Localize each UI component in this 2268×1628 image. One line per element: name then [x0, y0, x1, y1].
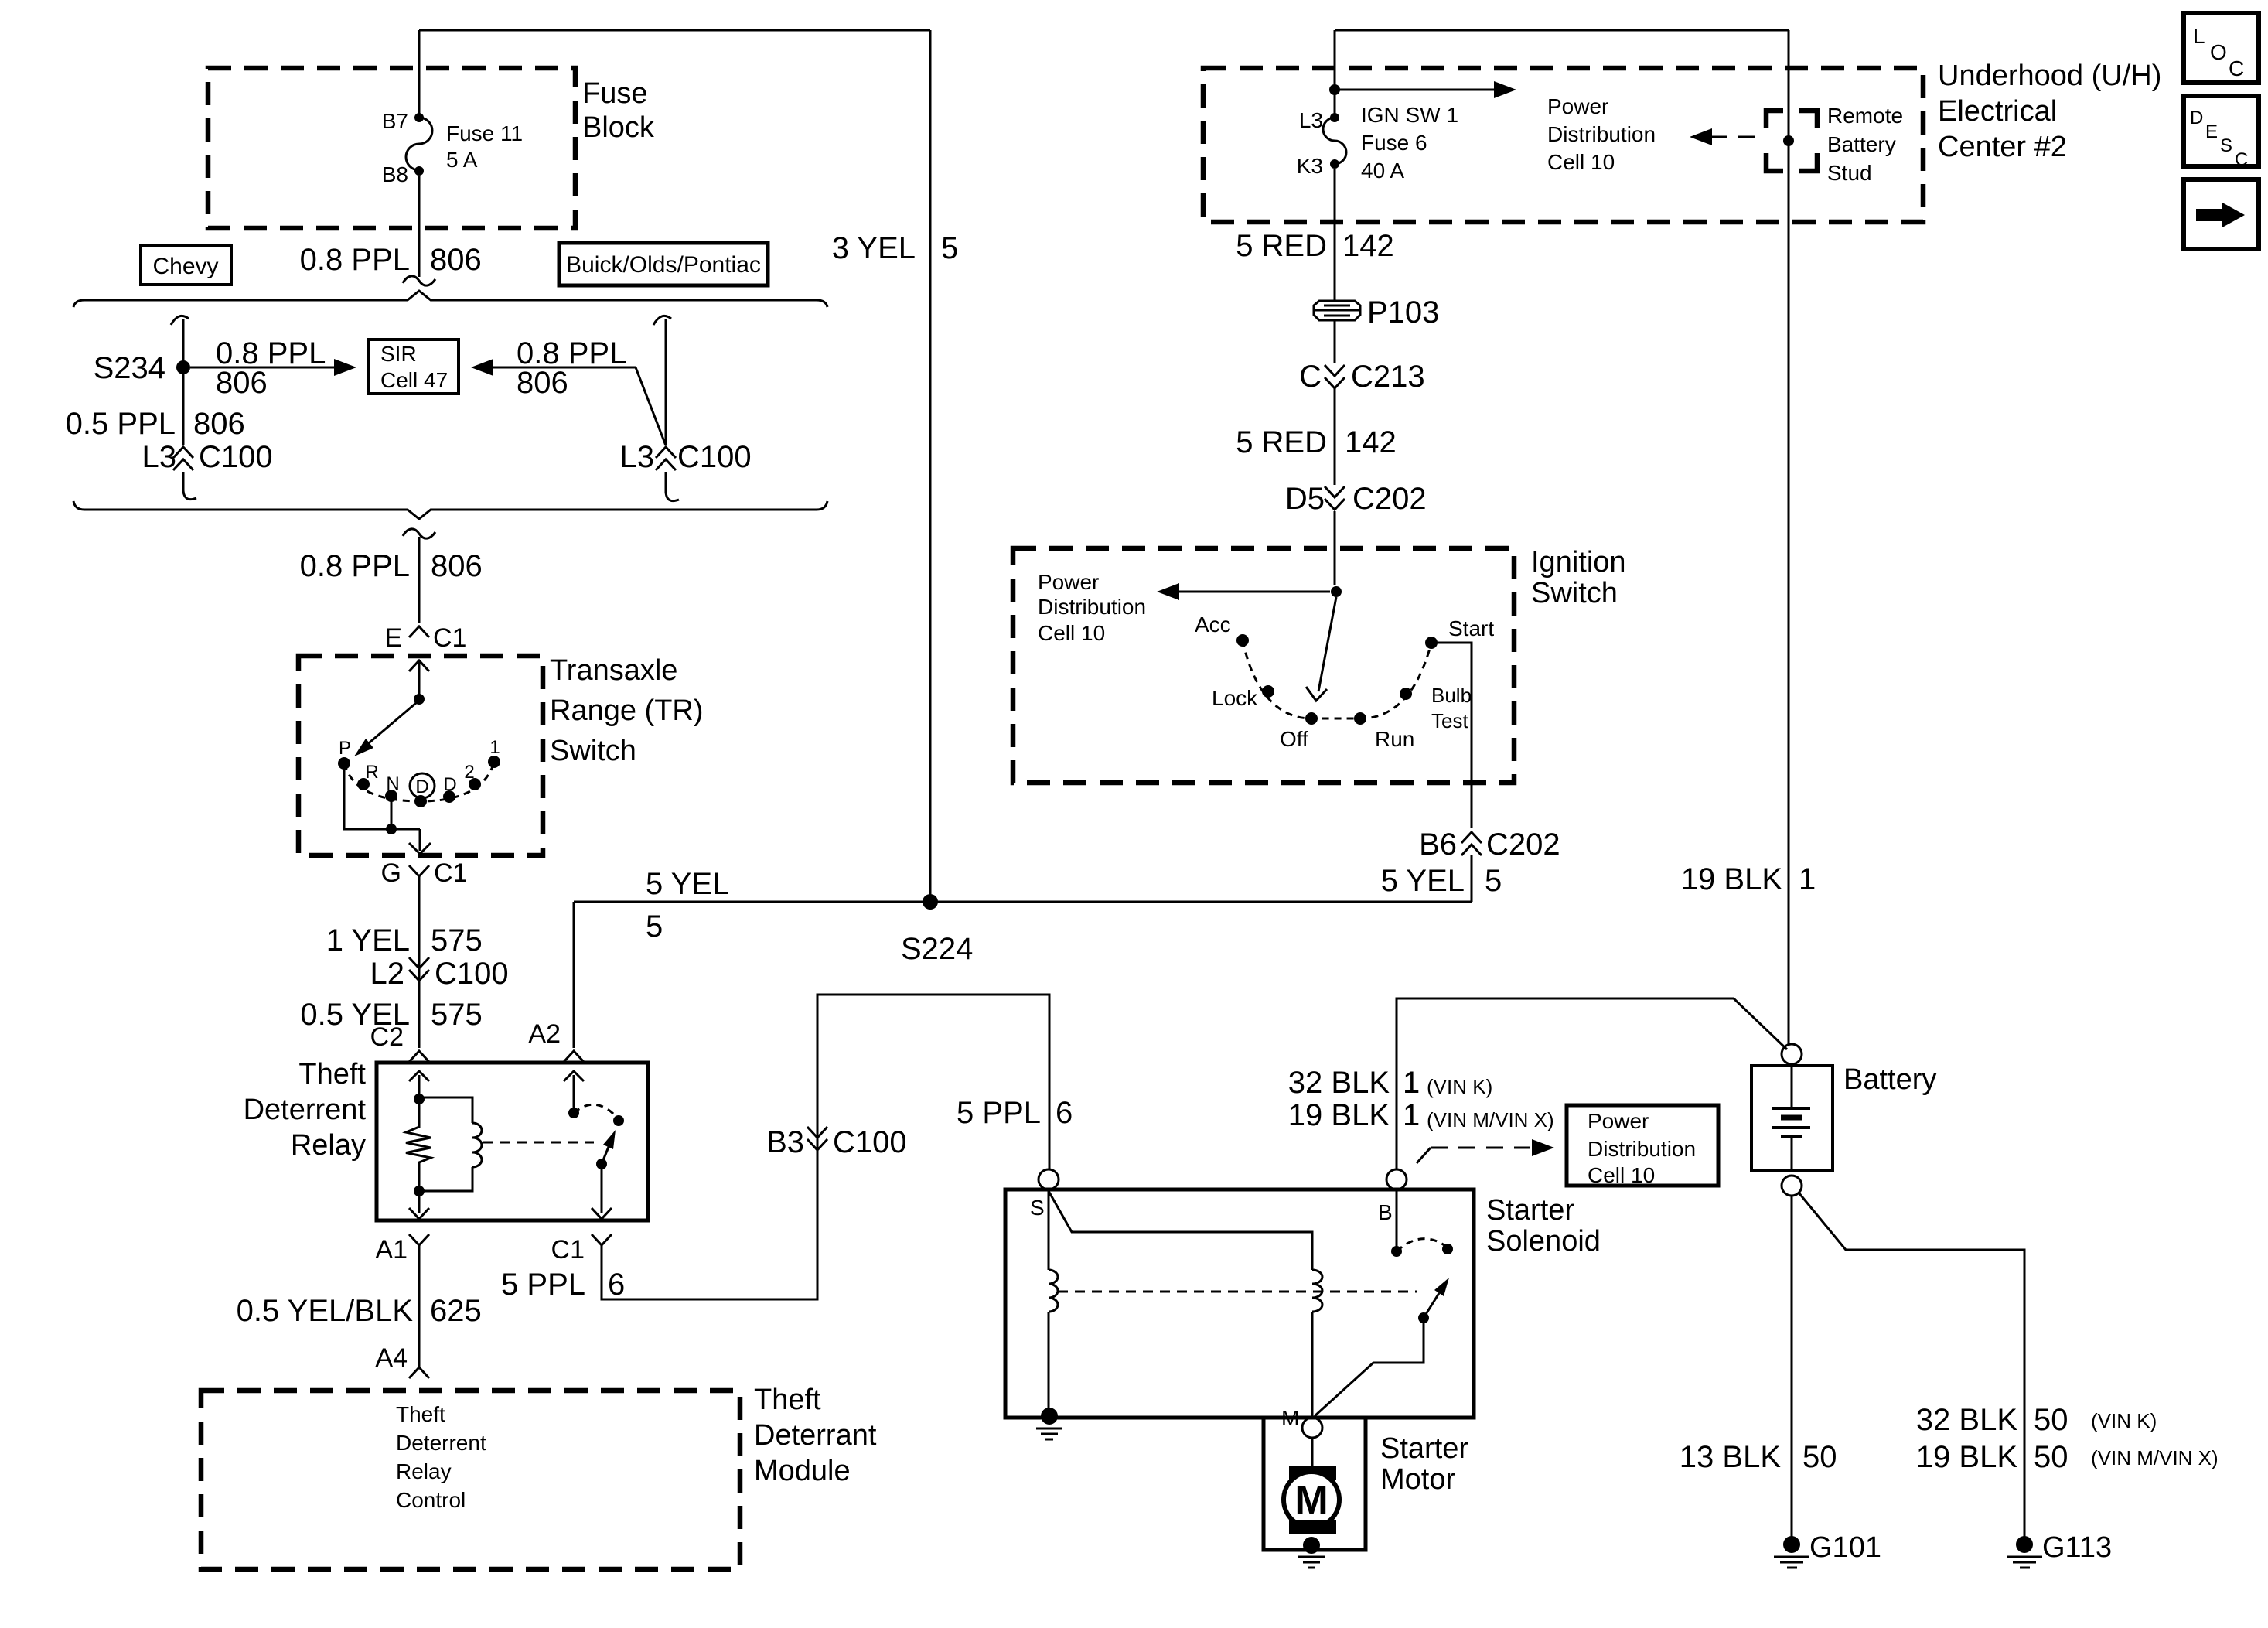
- svg-text:Theft: Theft: [396, 1402, 445, 1426]
- fuse F6 element: [1323, 118, 1346, 164]
- svg-text:Range (TR): Range (TR): [550, 695, 704, 727]
- wire into fuse B7: [418, 30, 421, 114]
- svg-text:Run: Run: [1375, 727, 1414, 751]
- svg-text:Solenoid: Solenoid: [1486, 1225, 1601, 1258]
- starter motor box: [1264, 1418, 1366, 1550]
- svg-text:Starter: Starter: [1380, 1432, 1468, 1465]
- wire into ignition switch: [1334, 511, 1336, 585]
- wire A2 drop from S224 bus: [573, 902, 575, 1048]
- svg-text:Relay: Relay: [396, 1459, 452, 1483]
- svg-text:Cell 47: Cell 47: [380, 368, 448, 392]
- svg-text:(VIN K): (VIN K): [1427, 1075, 1492, 1098]
- svg-text:D: D: [415, 776, 428, 797]
- svg-text:32 BLK: 32 BLK: [1288, 1066, 1390, 1100]
- connector G C1: [409, 865, 429, 876]
- svg-text:Power: Power: [1588, 1109, 1649, 1133]
- svg-text:C202: C202: [1352, 482, 1427, 516]
- terminal M circle: [1302, 1418, 1322, 1438]
- svg-text:SIR: SIR: [380, 342, 417, 366]
- svg-text:C: C: [2229, 56, 2244, 80]
- node Bulb Test: [1400, 688, 1412, 700]
- svg-text:575: 575: [431, 923, 483, 957]
- svg-text:Start: Start: [1448, 616, 1494, 640]
- svg-text:50: 50: [1802, 1440, 1837, 1474]
- wire pull-in to M: [1311, 1312, 1314, 1418]
- wire BOP branch lower: [665, 472, 667, 493]
- svg-text:L3: L3: [142, 440, 177, 474]
- svg-text:E: E: [2205, 121, 2218, 142]
- node D circled: [410, 773, 435, 798]
- wire N down: [391, 801, 393, 829]
- svg-text:13 BLK: 13 BLK: [1680, 1440, 1782, 1474]
- svg-text:C202: C202: [1486, 828, 1560, 862]
- node S234: [176, 360, 190, 374]
- svg-text:Cell 10: Cell 10: [1547, 150, 1615, 174]
- battery cell symbol: [1791, 1066, 1793, 1171]
- wire below C213: [1334, 388, 1336, 485]
- wire arrow right to SIR: [493, 367, 636, 369]
- connector A2 relay: [564, 1051, 584, 1062]
- svg-text:B: B: [1378, 1200, 1393, 1224]
- motor brush cap top: [1289, 1466, 1336, 1480]
- svg-text:L3: L3: [620, 440, 655, 474]
- svg-text:Test: Test: [1431, 709, 1468, 732]
- wire 3 YEL vertical: [929, 30, 932, 895]
- svg-text:0.8 PPL: 0.8 PPL: [300, 243, 410, 277]
- node G113: [2016, 1536, 2033, 1553]
- svg-text:142: 142: [1342, 229, 1394, 263]
- wire TR exit arrow down: [409, 829, 431, 854]
- ground solenoid: [1036, 1428, 1062, 1439]
- svg-text:C1: C1: [433, 623, 466, 653]
- svg-text:5: 5: [1485, 864, 1502, 898]
- svg-text:Center #2: Center #2: [1938, 131, 2067, 163]
- svg-text:Deterrent: Deterrent: [244, 1094, 367, 1126]
- fuse F11 element: [406, 118, 432, 170]
- svg-text:6: 6: [608, 1268, 625, 1302]
- svg-text:D: D: [443, 774, 456, 795]
- svg-text:A2: A2: [528, 1019, 561, 1049]
- connector C2 relay: [409, 1051, 429, 1062]
- svg-text:806: 806: [517, 366, 568, 400]
- svg-text:C: C: [2235, 149, 2248, 170]
- wire battery to G101: [1791, 1196, 1793, 1538]
- svg-text:Switch: Switch: [550, 735, 636, 767]
- inductor solenoid pull-in winding: [1312, 1270, 1322, 1312]
- wire arrow S234 to SIR: [190, 367, 335, 369]
- svg-text:5: 5: [941, 231, 958, 265]
- fuse block dashed box: [208, 68, 575, 228]
- svg-text:(VIN K): (VIN K): [2091, 1409, 2157, 1432]
- connector A1: [409, 1234, 429, 1245]
- wire armature to M: [1315, 1318, 1424, 1416]
- node 1: [488, 756, 500, 768]
- node relay coil top: [414, 1094, 425, 1104]
- node L3: [1330, 113, 1339, 122]
- svg-text:142: 142: [1345, 425, 1397, 459]
- svg-text:Off: Off: [1280, 727, 1308, 751]
- svg-text:5 RED: 5 RED: [1236, 229, 1327, 263]
- svg-text:C100: C100: [199, 440, 273, 474]
- svg-text:625: 625: [430, 1294, 482, 1328]
- resistor relay: [406, 1104, 431, 1191]
- svg-text:M: M: [1281, 1406, 1299, 1430]
- node solenoid ground: [1041, 1408, 1058, 1425]
- node relay contact fixed: [568, 1108, 579, 1118]
- wire solenoid armature arm: [1424, 1293, 1439, 1318]
- svg-text:O: O: [2210, 40, 2227, 64]
- wire coil branch bottom: [419, 1167, 472, 1191]
- node Start: [1425, 637, 1438, 649]
- svg-text:5 PPL: 5 PPL: [957, 1096, 1041, 1130]
- svg-text:5 A: 5 A: [446, 148, 478, 172]
- ground motor: [1298, 1557, 1325, 1568]
- svg-text:2: 2: [464, 762, 474, 783]
- svg-text:Control: Control: [396, 1488, 466, 1512]
- motor brush cap bottom: [1289, 1520, 1336, 1534]
- svg-text:Chevy: Chevy: [152, 254, 218, 279]
- svg-text:A1: A1: [375, 1235, 408, 1265]
- power distribution cell 10 box: [1567, 1105, 1718, 1186]
- wire coil branch top: [419, 1097, 472, 1123]
- svg-text:K3: K3: [1297, 154, 1323, 178]
- underhood electrical center dashed box: [1203, 68, 1923, 222]
- connector C C213: [1325, 365, 1345, 388]
- battery bottom terminal circle: [1782, 1176, 1802, 1196]
- wire break squiggle below brace: [403, 529, 435, 538]
- node Acc: [1236, 634, 1249, 647]
- svg-text:L2: L2: [370, 957, 405, 991]
- svg-text:Cell 10: Cell 10: [1588, 1163, 1655, 1187]
- wire S diagonal branch: [1049, 1191, 1312, 1270]
- connector P103 grommet: [1314, 301, 1360, 320]
- svg-text:(VIN M/VIN X): (VIN M/VIN X): [2091, 1446, 2219, 1469]
- connector A4: [409, 1367, 429, 1378]
- connector E C1: [409, 626, 429, 637]
- svg-text:Lock: Lock: [1212, 686, 1258, 710]
- svg-text:50: 50: [2034, 1403, 2068, 1437]
- DESC legend box: [2184, 96, 2259, 166]
- svg-text:40 A: 40 A: [1361, 159, 1404, 183]
- node relay coil bottom: [414, 1186, 425, 1196]
- svg-text:Deterrant: Deterrant: [754, 1419, 877, 1452]
- wire TR arc dashed: [344, 762, 494, 801]
- svg-text:A4: A4: [375, 1343, 408, 1373]
- node relay armature pivot: [596, 1159, 607, 1169]
- wire 5 PPL down to S: [1049, 995, 1051, 1169]
- svg-text:S224: S224: [901, 932, 973, 966]
- terminal B circle: [1386, 1169, 1407, 1189]
- wire dashed arrow to power dist: [1709, 136, 1755, 138]
- wire down to E C1: [418, 537, 421, 623]
- svg-text:0.8 PPL: 0.8 PPL: [300, 549, 410, 583]
- svg-text:Theft: Theft: [298, 1058, 366, 1090]
- svg-text:Module: Module: [754, 1455, 851, 1487]
- svg-text:0.5 YEL/BLK: 0.5 YEL/BLK: [237, 1294, 414, 1328]
- node Off: [1305, 712, 1318, 725]
- wire S224 horizontal bus: [574, 901, 1472, 903]
- wire BOP branch hook bottom: [666, 492, 679, 501]
- svg-text:L: L: [2193, 24, 2205, 48]
- ground G113: [2007, 1557, 2042, 1568]
- node ignition feed: [1331, 586, 1342, 597]
- inductor relay coil: [472, 1123, 482, 1167]
- connector L3 C100 right chevrons: [656, 447, 676, 470]
- svg-text:B7: B7: [382, 109, 408, 133]
- svg-text:Block: Block: [582, 111, 655, 144]
- wire below P103: [1334, 320, 1336, 363]
- wire diagonal to BOP branch: [636, 367, 666, 445]
- node remote stud: [1783, 135, 1794, 146]
- svg-text:Electrical: Electrical: [1938, 95, 2057, 128]
- wire relay A2 arrow up: [564, 1071, 584, 1113]
- transaxle range switch dashed box: [298, 656, 543, 855]
- svg-text:19 BLK: 19 BLK: [1916, 1440, 2018, 1474]
- wire BOP branch hook top: [653, 316, 671, 325]
- svg-text:C100: C100: [833, 1125, 907, 1159]
- svg-text:1: 1: [1403, 1066, 1420, 1100]
- node TR junction: [386, 824, 397, 834]
- svg-text:1: 1: [489, 737, 500, 758]
- terminal S circle: [1039, 1169, 1059, 1189]
- Buick/Olds/Pontiac box: [559, 243, 768, 285]
- node R: [357, 778, 370, 790]
- node solenoid armature pivot: [1418, 1312, 1429, 1323]
- svg-text:Distribution: Distribution: [1038, 595, 1146, 619]
- wire chevy branch: [182, 319, 185, 445]
- svg-text:IGN SW 1: IGN SW 1: [1361, 103, 1458, 127]
- svg-text:5 PPL: 5 PPL: [501, 1268, 585, 1302]
- wire below fuse: [418, 176, 421, 277]
- connector B6 C202: [1461, 832, 1482, 855]
- wire ignition arc dashed: [1243, 640, 1431, 718]
- svg-text:P103: P103: [1367, 295, 1439, 329]
- Chevy box: [141, 246, 231, 285]
- svg-text:C213: C213: [1351, 360, 1425, 394]
- wire relay A1 arrow down: [409, 1191, 429, 1219]
- svg-text:M: M: [1294, 1478, 1328, 1523]
- connector B3 C100: [807, 1127, 827, 1150]
- svg-text:Stud: Stud: [1827, 161, 1872, 185]
- svg-text:P: P: [339, 738, 351, 759]
- wire B into box: [1396, 1189, 1398, 1247]
- svg-text:C100: C100: [435, 957, 509, 991]
- svg-text:Fuse 11: Fuse 11: [446, 121, 523, 145]
- wire hold-in to ground: [1048, 1312, 1050, 1412]
- connector D5 C202: [1325, 486, 1345, 510]
- wire relay C1 arrow down: [592, 1164, 612, 1219]
- svg-text:19 BLK: 19 BLK: [1288, 1098, 1390, 1132]
- svg-text:G113: G113: [2042, 1531, 2112, 1564]
- svg-text:G: G: [381, 858, 401, 888]
- node P: [338, 757, 350, 770]
- wire TR entry arrow up: [409, 660, 429, 695]
- svg-text:C2: C2: [370, 1022, 404, 1052]
- brace bottom: [73, 501, 827, 519]
- svg-text:C: C: [1299, 360, 1322, 394]
- svg-text:S: S: [1030, 1196, 1045, 1220]
- svg-text:6: 6: [1056, 1096, 1073, 1130]
- wire 19 BLK drop: [1788, 30, 1790, 1044]
- svg-text:0.5 PPL: 0.5 PPL: [66, 407, 176, 441]
- node motor ground: [1303, 1537, 1320, 1554]
- wire B6 down to bus: [1471, 855, 1473, 902]
- wire TR wiper arrow: [365, 703, 416, 746]
- wire relay armature arm: [602, 1147, 609, 1164]
- wire Start to B6: [1431, 643, 1472, 828]
- svg-text:575: 575: [431, 998, 483, 1032]
- svg-text:5 YEL: 5 YEL: [1381, 864, 1465, 898]
- svg-text:5: 5: [646, 910, 663, 944]
- svg-text:C1: C1: [434, 858, 467, 888]
- svg-text:Remote: Remote: [1827, 104, 1903, 128]
- svg-text:806: 806: [216, 366, 268, 400]
- starter solenoid box: [1005, 1189, 1474, 1418]
- svg-text:806: 806: [431, 549, 483, 583]
- svg-text:S234: S234: [94, 351, 165, 385]
- svg-text:G101: G101: [1809, 1531, 1881, 1564]
- svg-text:Bulb: Bulb: [1431, 684, 1472, 707]
- connector L2 C100: [409, 957, 429, 981]
- ground G101: [1774, 1557, 1809, 1568]
- wire break squiggle: [403, 276, 435, 285]
- node fuse feed: [1329, 84, 1340, 95]
- svg-text:R: R: [365, 762, 378, 783]
- svg-text:Power: Power: [1547, 94, 1608, 118]
- wire relay C1 to B3 riser: [602, 995, 1049, 1299]
- node K3: [1330, 159, 1339, 169]
- svg-text:S: S: [2220, 135, 2232, 156]
- inductor solenoid hold-in winding: [1049, 1270, 1058, 1312]
- wire A1 to A4: [418, 1245, 421, 1367]
- svg-text:B3: B3: [766, 1125, 804, 1159]
- remote battery stud bracket: [1766, 111, 1817, 171]
- svg-text:Switch: Switch: [1531, 577, 1618, 609]
- svg-text:Acc: Acc: [1195, 613, 1231, 637]
- wire chevy branch hook bottom: [183, 490, 196, 500]
- battery top terminal circle: [1782, 1044, 1802, 1064]
- svg-text:1 YEL: 1 YEL: [326, 923, 410, 957]
- svg-text:D: D: [2190, 108, 2203, 128]
- svg-text:Theft: Theft: [754, 1384, 821, 1416]
- svg-text:Battery: Battery: [1827, 132, 1896, 156]
- svg-text:Battery: Battery: [1843, 1063, 1936, 1096]
- node relay contact right: [613, 1115, 624, 1126]
- wire battery to G113 branch: [1799, 1193, 2024, 1538]
- wire arrow to power distribution top: [1335, 89, 1504, 91]
- node Lock: [1262, 685, 1274, 698]
- wire G C1 down: [418, 876, 421, 1048]
- wire below fuse 6: [1334, 169, 1336, 300]
- svg-text:Buick/Olds/Pontiac: Buick/Olds/Pontiac: [566, 252, 761, 278]
- node solenoid contact B: [1391, 1246, 1402, 1257]
- wire ignition wiper arrow: [1306, 597, 1336, 701]
- wire BOP branch: [665, 319, 667, 445]
- svg-text:N: N: [386, 773, 399, 794]
- svg-text:E: E: [384, 623, 402, 653]
- svg-text:Power: Power: [1038, 570, 1099, 594]
- wire arrow to power distribution: [1171, 591, 1330, 593]
- svg-text:Starter: Starter: [1486, 1194, 1574, 1227]
- node S224: [923, 894, 938, 910]
- node 2: [469, 778, 481, 790]
- node B7: [414, 113, 424, 122]
- battery box: [1751, 1066, 1833, 1171]
- motor M circle: [1284, 1472, 1339, 1527]
- svg-text:Cell 10: Cell 10: [1038, 621, 1105, 645]
- node N: [385, 790, 397, 802]
- svg-text:32 BLK: 32 BLK: [1916, 1403, 2018, 1437]
- wire S coil branch: [1048, 1189, 1050, 1270]
- svg-text:(VIN M/VIN X): (VIN M/VIN X): [1427, 1108, 1554, 1131]
- node G101: [1783, 1536, 1800, 1553]
- node B8: [414, 166, 424, 176]
- svg-text:19 BLK: 19 BLK: [1681, 862, 1783, 896]
- svg-text:Fuse 6: Fuse 6: [1361, 131, 1427, 155]
- svg-text:Distribution: Distribution: [1547, 122, 1656, 146]
- svg-text:806: 806: [430, 243, 482, 277]
- svg-text:1: 1: [1403, 1098, 1420, 1132]
- svg-text:Motor: Motor: [1380, 1463, 1455, 1496]
- svg-text:Fuse: Fuse: [582, 77, 647, 110]
- svg-text:B8: B8: [382, 162, 408, 186]
- svg-text:5 RED: 5 RED: [1236, 425, 1327, 459]
- svg-text:1: 1: [1799, 862, 1816, 896]
- svg-text:Transaxle: Transaxle: [550, 654, 677, 687]
- wire dashed arrow to power dist (solenoid): [1417, 1148, 1431, 1163]
- wire into IGN SW fuse: [1334, 30, 1336, 114]
- brace top: [73, 291, 827, 307]
- node TR common: [414, 694, 425, 705]
- connector C1 relay out: [592, 1234, 612, 1245]
- svg-text:C100: C100: [677, 440, 752, 474]
- wire solenoid contact dashed arc: [1397, 1239, 1448, 1251]
- svg-text:3 YEL: 3 YEL: [832, 231, 916, 265]
- svg-text:L3: L3: [1299, 108, 1323, 132]
- svg-text:50: 50: [2034, 1440, 2068, 1474]
- svg-text:Underhood (U/H): Underhood (U/H): [1938, 60, 2161, 92]
- wire chevy branch hook top: [171, 316, 189, 325]
- svg-text:806: 806: [193, 407, 245, 441]
- svg-text:B6: B6: [1419, 828, 1457, 862]
- wire chevy branch lower: [182, 472, 185, 492]
- svg-text:5 YEL: 5 YEL: [646, 867, 729, 901]
- svg-text:Ignition: Ignition: [1531, 546, 1626, 579]
- wire relay contact dashed arc: [574, 1104, 619, 1119]
- wire relay C2 arrow up: [409, 1071, 429, 1099]
- wire P to exit: [344, 768, 420, 829]
- theft deterrent relay box: [377, 1063, 648, 1220]
- node D: [443, 790, 455, 803]
- svg-text:Relay: Relay: [291, 1129, 366, 1162]
- wire M to motor: [1311, 1438, 1314, 1468]
- LOC legend box: [2184, 13, 2259, 83]
- svg-text:Distribution: Distribution: [1588, 1137, 1696, 1161]
- svg-text:D5: D5: [1285, 482, 1325, 516]
- ignition switch dashed box: [1013, 548, 1514, 783]
- node Run: [1354, 712, 1366, 725]
- svg-text:Deterrent: Deterrent: [396, 1431, 486, 1455]
- svg-text:C1: C1: [551, 1235, 585, 1265]
- node solenoid contact right: [1442, 1244, 1453, 1254]
- arrow legend box: [2184, 179, 2259, 249]
- wire B riser: [1397, 998, 1787, 1169]
- SIR Cell 47 box: [369, 340, 459, 394]
- wire relay linkage dashed: [483, 1142, 594, 1144]
- wire solenoid linkage dashed: [1058, 1291, 1417, 1293]
- wire top-left horizontal bus: [419, 29, 930, 32]
- wire top-right horizontal bus: [1335, 29, 1789, 32]
